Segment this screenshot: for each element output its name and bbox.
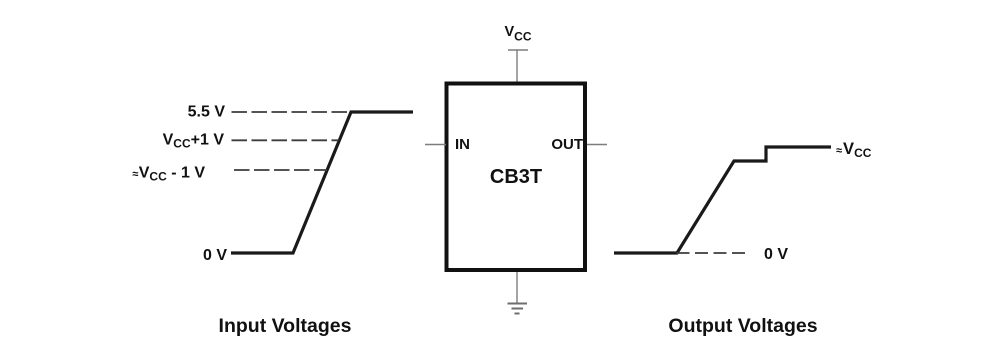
svg-text:Output Voltages: Output Voltages — [668, 315, 817, 337]
svg-text:VCC: VCC — [505, 24, 532, 44]
svg-text:IN: IN — [455, 136, 470, 153]
svg-text:≈VCC - 1 V: ≈VCC - 1 V — [132, 165, 205, 184]
svg-text:OUT: OUT — [551, 136, 583, 153]
svg-text:≈VCC: ≈VCC — [836, 140, 872, 160]
svg-text:VCC+1 V: VCC+1 V — [163, 132, 225, 151]
svg-text:Input Voltages: Input Voltages — [219, 315, 352, 337]
svg-text:0 V: 0 V — [203, 247, 227, 264]
svg-text:5.5 V: 5.5 V — [188, 104, 226, 121]
svg-text:CB3T: CB3T — [490, 166, 542, 188]
svg-text:0 V: 0 V — [764, 246, 788, 263]
